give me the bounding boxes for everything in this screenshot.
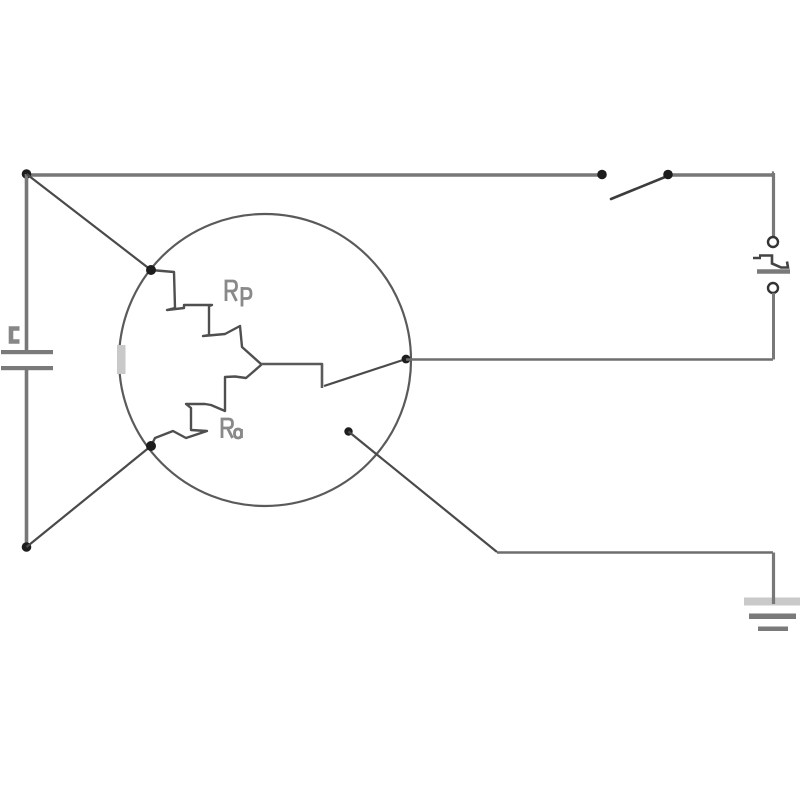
switch contact dot left [597, 170, 607, 180]
node: motor right terminal [402, 355, 411, 364]
capacitor C top plate [1, 350, 53, 354]
wire: left vertical lower (capacitor to bottom node) [25, 369, 29, 547]
wire: diagonal bottom-left to motor [27, 446, 152, 547]
ground bar 2 [749, 614, 796, 620]
resistor Rp (zigzag) [151, 270, 261, 364]
wiper diagonal to right terminal [324, 359, 406, 386]
wire: top horizontal right section [668, 173, 774, 177]
node: motor upper-left terminal [146, 265, 156, 275]
wire: left vertical upper (node to capacitor) [25, 174, 29, 351]
resistor Ra (zigzag) [151, 365, 261, 446]
label C [11, 329, 20, 342]
wiper arm horizontal from center [261, 364, 322, 388]
label Ra [222, 419, 242, 438]
ground bar 1 [744, 598, 800, 606]
connector terminal bottom circle [768, 283, 778, 293]
switch S1 blade (open) [611, 175, 670, 199]
node: motor internal brush dot [344, 427, 352, 435]
wire: bottom right vertical to ground [772, 553, 775, 605]
connector terminal top circle [768, 237, 778, 247]
wire: diagonal top-left to motor [27, 174, 152, 270]
capacitor C bottom plate [1, 366, 53, 370]
node: motor lower-left terminal [146, 441, 156, 451]
node: bottom-left junction [22, 542, 32, 552]
wire: bottom horizontal to right [497, 551, 773, 554]
label Rp [226, 281, 251, 307]
ground bar 3 [758, 627, 788, 632]
node: top-left junction [22, 169, 32, 179]
connector bottom bar [757, 269, 790, 274]
wire: right vertical top (corner to connector) [772, 173, 776, 237]
wire: top horizontal left section [26, 173, 602, 177]
wire: right vertical (connector to mid horizontal) [772, 293, 775, 360]
wire: diagonal from brush to bottom [349, 432, 498, 553]
switch contact dot right [663, 170, 673, 180]
motor housing circle [119, 214, 411, 506]
connector squiggle (thermal element) [753, 256, 788, 268]
wire: horizontal right terminal to right vertical [406, 358, 773, 361]
light patch over left arc of circle [115, 346, 128, 373]
